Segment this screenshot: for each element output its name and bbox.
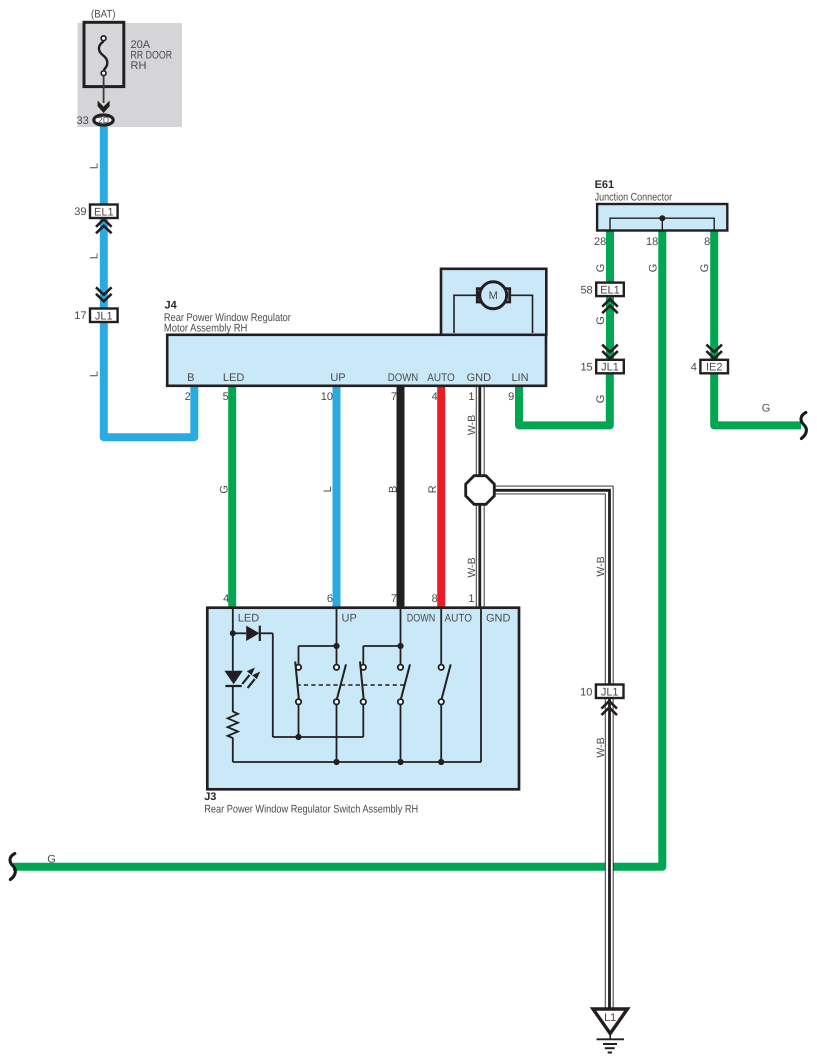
svg-text:(BAT): (BAT) <box>91 9 116 21</box>
svg-text:Junction Connector: Junction Connector <box>595 192 673 204</box>
svg-text:10: 10 <box>321 391 333 403</box>
svg-text:G: G <box>647 264 659 273</box>
svg-text:JL1: JL1 <box>95 310 113 322</box>
svg-text:G: G <box>699 264 711 273</box>
svg-text:6: 6 <box>327 593 333 605</box>
svg-text:7: 7 <box>391 391 397 403</box>
svg-text:W-B: W-B <box>466 557 478 577</box>
svg-text:G: G <box>595 395 607 404</box>
svg-text:2: 2 <box>185 391 191 403</box>
svg-text:M: M <box>489 290 498 302</box>
svg-text:JL1: JL1 <box>601 362 619 374</box>
svg-text:L: L <box>89 163 101 169</box>
svg-text:W-B: W-B <box>595 556 607 576</box>
svg-text:LIN: LIN <box>511 372 528 384</box>
svg-text:RH: RH <box>131 60 147 72</box>
svg-text:4: 4 <box>691 362 697 374</box>
svg-text:L: L <box>89 371 101 377</box>
svg-text:58: 58 <box>580 284 592 296</box>
svg-text:EL1: EL1 <box>600 284 620 296</box>
svg-text:GND: GND <box>467 372 492 384</box>
svg-text:W-B: W-B <box>595 737 607 757</box>
svg-text:1: 1 <box>468 593 474 605</box>
svg-text:8: 8 <box>432 593 438 605</box>
svg-text:33: 33 <box>77 115 89 127</box>
svg-text:J3: J3 <box>204 791 216 803</box>
svg-text:EL1: EL1 <box>94 206 114 218</box>
svg-text:17: 17 <box>74 310 86 322</box>
svg-text:LED: LED <box>223 372 244 384</box>
svg-text:G: G <box>47 854 56 866</box>
svg-text:UP: UP <box>342 613 357 625</box>
svg-text:B: B <box>387 486 399 493</box>
svg-text:G: G <box>595 316 607 325</box>
svg-text:8: 8 <box>704 236 710 248</box>
svg-text:5: 5 <box>223 391 229 403</box>
svg-text:10: 10 <box>580 686 592 698</box>
svg-text:R: R <box>427 485 439 493</box>
svg-text:4: 4 <box>223 593 229 605</box>
svg-text:GND: GND <box>486 613 511 625</box>
svg-text:4: 4 <box>432 391 438 403</box>
svg-text:L: L <box>89 253 101 259</box>
svg-text:2D: 2D <box>98 115 109 125</box>
svg-text:B: B <box>187 372 194 384</box>
svg-text:AUTO: AUTO <box>427 372 455 384</box>
svg-text:LED: LED <box>238 613 259 625</box>
svg-text:JL1: JL1 <box>601 686 619 698</box>
svg-text:L: L <box>322 486 334 492</box>
svg-text:9: 9 <box>508 391 514 403</box>
svg-text:18: 18 <box>646 236 658 248</box>
svg-text:Motor Assembly RH: Motor Assembly RH <box>164 323 248 335</box>
svg-text:1: 1 <box>468 391 474 403</box>
svg-text:L1: L1 <box>604 1012 616 1024</box>
svg-text:IE2: IE2 <box>706 362 723 374</box>
svg-text:Rear Power Window Regulator Sw: Rear Power Window Regulator Switch Assem… <box>204 804 418 816</box>
svg-text:UP: UP <box>330 372 345 384</box>
svg-text:J4: J4 <box>165 300 178 312</box>
svg-text:W-B: W-B <box>466 415 478 435</box>
svg-text:G: G <box>219 485 231 494</box>
svg-text:G: G <box>595 264 607 273</box>
svg-text:7: 7 <box>391 593 397 605</box>
svg-text:DOWN: DOWN <box>407 613 436 625</box>
svg-text:G: G <box>762 403 771 415</box>
svg-text:AUTO: AUTO <box>445 613 473 625</box>
svg-text:15: 15 <box>580 362 592 374</box>
svg-text:E61: E61 <box>595 179 615 191</box>
svg-text:DOWN: DOWN <box>388 372 419 384</box>
svg-text:39: 39 <box>74 206 86 218</box>
svg-text:28: 28 <box>594 236 606 248</box>
